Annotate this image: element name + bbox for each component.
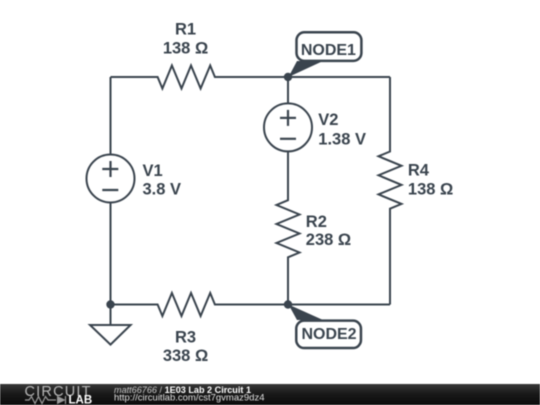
svg-text:138 Ω: 138 Ω xyxy=(163,40,208,58)
svg-text:LAB: LAB xyxy=(69,395,93,405)
svg-text:R4: R4 xyxy=(408,162,430,180)
svg-text:http://circuitlab.com/cst7gvma: http://circuitlab.com/cst7gvmaz9dz4 xyxy=(114,393,264,404)
svg-text:138 Ω: 138 Ω xyxy=(408,180,453,198)
svg-text:R1: R1 xyxy=(175,21,196,39)
svg-text:1.38 V: 1.38 V xyxy=(318,131,366,149)
svg-text:NODE1: NODE1 xyxy=(301,42,356,59)
svg-text:R2: R2 xyxy=(306,213,327,231)
svg-text:R3: R3 xyxy=(175,328,196,346)
svg-text:238 Ω: 238 Ω xyxy=(306,231,351,249)
svg-text:NODE2: NODE2 xyxy=(301,326,356,343)
svg-text:338 Ω: 338 Ω xyxy=(163,347,208,365)
svg-text:3.8 V: 3.8 V xyxy=(143,181,182,199)
svg-text:V2: V2 xyxy=(318,111,338,129)
svg-text:V1: V1 xyxy=(143,162,163,180)
